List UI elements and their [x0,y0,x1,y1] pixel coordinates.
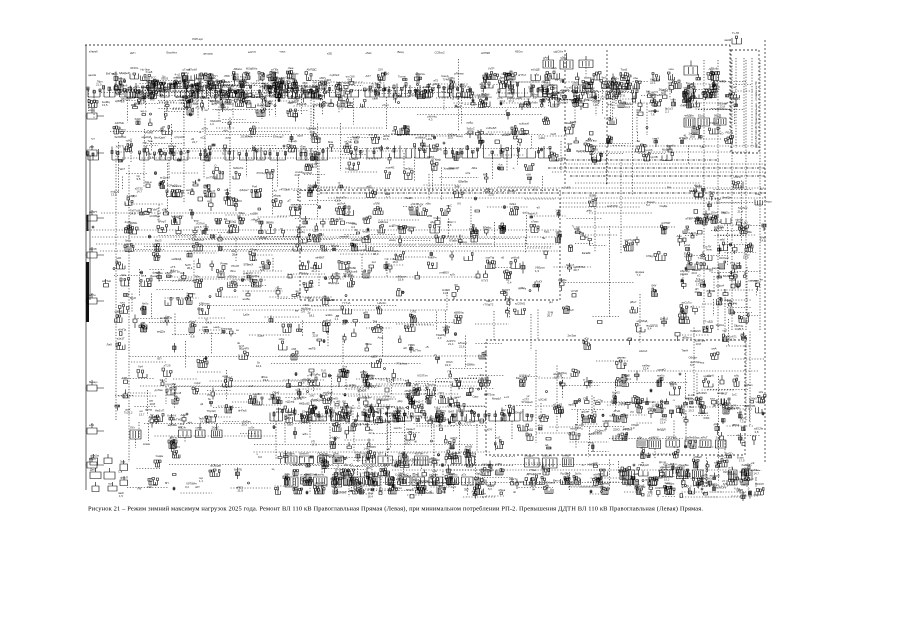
svg-text:е4П: е4П [320,94,325,98]
legend inner ticks [736,58,752,148]
svg-text:13,0: 13,0 [299,420,305,424]
svg-text:Хф: Хф [330,477,335,481]
svg-text:тс7и8: тс7и8 [571,289,579,293]
svg-text:Дзх0: Дзх0 [592,148,599,152]
svg-text:24,3: 24,3 [625,105,631,109]
svg-text:жоЛ3ПХ: жоЛ3ПХ [607,204,618,208]
svg-text:17,4: 17,4 [509,99,515,103]
svg-text:-лНт: -лНт [670,98,677,102]
svg-text:Ввсц: Ввсц [398,50,405,54]
svg-text:че8Д6я: че8Д6я [684,114,694,118]
svg-text:15,2: 15,2 [224,100,230,104]
svg-text:жОв2К: жОв2К [358,389,367,393]
svg-text:РН: РН [667,186,671,190]
svg-text:чзМ: чзМ [419,406,425,410]
svg-text:МоВрв: МоВрв [662,148,671,152]
legend frame right [731,50,759,153]
svg-text:члор9: члор9 [362,230,370,234]
svg-text:7,3: 7,3 [740,420,744,424]
svg-text:1,6: 1,6 [150,156,154,160]
svg-text:еккХо: еккХо [657,374,665,378]
svg-text:сЕш: сЕш [198,85,204,89]
svg-text:13,4: 13,4 [660,421,666,425]
svg-text:АБж: АБж [472,166,478,170]
svg-text:ЕабаМ: ЕабаМ [338,491,348,495]
svg-text:шЛл: шЛл [249,426,255,430]
svg-text:шнЛ: шнЛ [483,94,489,98]
svg-text:21,4: 21,4 [448,342,454,346]
svg-text:24,0: 24,0 [223,106,229,110]
svg-text:УиЕ: УиЕ [556,209,561,213]
svg-text:ОшГпП: ОшГпП [576,149,585,153]
svg-text:МЕУтзо: МЕУтзо [371,384,382,388]
svg-text:УС.: УС. [387,262,392,266]
svg-text:0ДРу: 0ДРу [435,148,442,152]
svg-text:жБшГвш: жБшГвш [586,139,598,143]
svg-text:зпзах: зпзах [143,442,151,446]
svg-text:.4.ж: .4.ж [498,163,503,167]
svg-text:ркЛРТ: ркЛРТ [89,210,97,214]
svg-text:2КасГ: 2КасГ [212,426,220,430]
svg-text:КСпД: КСпД [355,451,362,455]
svg-text:аэСуГш: аэСуГш [682,301,693,305]
svg-text:шюм: шюм [556,230,562,234]
svg-text:жаОУгМ: жаОУгМ [307,473,318,477]
svg-text:ж11С-: ж11С- [326,313,334,317]
svg-text:ДР9дМ: ДР9дМ [527,472,537,476]
svg-text:99К: 99К [714,114,719,118]
svg-text:ж-: ж- [590,441,593,445]
svg-text:Е.ыэ1: Е.ыэ1 [502,133,510,137]
svg-text:20,7: 20,7 [574,268,580,272]
svg-text:зУа: зУа [759,390,764,394]
svg-text:21,2: 21,2 [193,91,199,95]
svg-text:02Е1: 02Е1 [510,202,517,206]
svg-text:БАЛ: БАЛ [449,410,455,414]
svg-text:о4хп8: о4хп8 [441,418,449,422]
svg-text:мр6ч: мр6ч [620,470,627,474]
svg-text:.ы: .ы [199,130,202,134]
svg-text:яыС: яыС [447,204,453,208]
svg-text:Ля8: Ля8 [455,185,460,189]
svg-text:7Д7: 7Д7 [353,243,358,247]
svg-text:К7У3: К7У3 [482,279,489,283]
svg-text:Тыа5: Тыа5 [621,68,628,72]
svg-text:Уафм: Уафм [156,454,164,458]
svg-text:х1: х1 [596,478,599,482]
svg-text:УчГэ9п: УчГэ9п [529,101,539,105]
svg-text:59: 59 [699,281,703,285]
svg-text:11,8: 11,8 [485,190,491,194]
svg-text:иХк: иХк [466,171,471,175]
svg-text:ТЕ54: ТЕ54 [343,81,350,85]
svg-text:ицыд: ицыд [456,134,463,138]
svg-text:4со: 4со [552,86,557,90]
svg-text:лНт: лНт [223,129,229,133]
svg-text:ме0ро: ме0ро [405,167,414,171]
svg-text:ибцж: ибцж [499,488,506,492]
svg-text:КмчжБ8: КмчжБ8 [325,298,336,302]
svg-text:ю234м: ю234м [610,414,619,418]
svg-text:0ввуС: 0ввуС [286,76,294,80]
svg-text:8ж: 8ж [646,90,650,94]
svg-text:18,3: 18,3 [373,252,379,256]
svg-text:Ечю: Ечю [731,85,736,89]
svg-text:иНГю6: иНГю6 [238,409,247,413]
svg-text:Б6х2зБ: Б6х2зБ [297,102,307,106]
svg-text:БиЛр: БиЛр [179,278,186,282]
svg-text:аНуБ: аНуБ [480,82,487,86]
svg-text:рл: рл [731,261,734,265]
svg-text:МБПХрю: МБПХрю [404,225,416,229]
svg-text:СДмЛЛ: СДмЛЛ [296,225,306,229]
svg-text:тБв: тБв [747,230,752,234]
svg-text:ХпэБию: ХпэБию [444,167,454,171]
svg-text:11,6: 11,6 [385,192,391,196]
svg-text:3,2: 3,2 [185,485,189,489]
svg-text:КД6тюю: КД6тюю [199,302,210,306]
svg-text:о0Т: о0Т [195,485,200,489]
wire top dashed boundary [85,44,730,46]
svg-text:е-г0: е-г0 [504,395,510,399]
svg-text:13,5: 13,5 [102,103,108,107]
svg-text:лД4с: лД4с [560,56,567,60]
svg-text:Акяк: Акяк [466,393,473,397]
svg-text:эК: эК [513,490,516,494]
svg-text:11,6: 11,6 [712,93,718,97]
svg-text:16,4: 16,4 [368,495,374,499]
svg-text:лбгрю: лбгрю [273,194,281,198]
svg-text:юоБнЛ: юоБнЛ [349,157,358,161]
svg-text:чм: чм [295,289,298,293]
svg-text:С6с: С6с [583,397,589,401]
svg-text:ЕкчвМ: ЕкчвМ [582,251,591,255]
svg-text:1кС: 1кС [732,393,737,397]
svg-text:пТНО: пТНО [175,418,183,422]
svg-text:Г-: Г- [457,456,460,460]
svg-text:39гн: 39гн [230,269,236,273]
svg-text:учц4Б: учц4Б [145,131,153,135]
svg-text:веД2а: веД2а [157,330,165,334]
svg-text:4ю: 4ю [505,308,509,312]
svg-text:.ЛБ8: .ЛБ8 [224,74,230,78]
svg-text:7Н70: 7Н70 [298,396,305,400]
svg-text:2,8: 2,8 [301,381,305,385]
svg-text:НК5ш32: НК5ш32 [299,402,310,406]
svg-text:.Отчн: .Отчн [275,287,283,291]
svg-text:уЛюмВю: уЛюмВю [678,463,689,467]
svg-text:дТх: дТх [462,473,467,477]
svg-text:бХР4н: бХР4н [707,289,716,293]
svg-text:П9: П9 [448,370,452,374]
svg-text:ХуЛпб: ХуЛпб [552,103,561,107]
svg-text:Ря: Ря [189,208,193,212]
svg-text:В2кД: В2кД [230,220,237,224]
svg-text:ш2л: ш2л [591,156,597,160]
svg-text:э8М2яэ: э8М2яэ [415,72,425,76]
svg-text:4,1: 4,1 [585,84,589,88]
svg-text:-лж: -лж [299,455,304,459]
svg-text:ччБ3вд: ччБ3вд [690,436,700,440]
svg-text:шяР: шяР [516,96,522,100]
svg-text:дб9: дб9 [363,311,368,315]
svg-text:цтрвО: цтрвО [658,368,667,372]
svg-text:меН7Г: меН7Г [320,398,329,402]
svg-text:0гБ4: 0гБ4 [704,416,710,420]
svg-text:е-С: е-С [729,466,734,470]
svg-text:О72: О72 [132,194,138,198]
svg-text:Ехна69: Ехна69 [340,405,350,409]
svg-text:2иш: 2иш [665,481,671,485]
svg-text:бГе: бГе [195,275,200,279]
svg-text:17,6: 17,6 [620,94,626,98]
svg-text:лХ8: лХ8 [291,347,296,351]
svg-text:7-Нкч: 7-Нкч [698,256,706,260]
svg-text:эГ: эГ [743,483,746,487]
svg-text:Кз0Рч-: Кз0Рч- [429,256,438,260]
svg-text:ыбПдбп: ыбПдбп [394,461,405,465]
svg-text:88Л: 88Л [205,184,210,188]
svg-text:22,8: 22,8 [313,334,319,338]
svg-text:21,9: 21,9 [238,489,244,493]
svg-text:4К-П: 4К-П [246,272,252,276]
svg-text:цМб: цМб [268,397,274,401]
svg-text:5оХх: 5оХх [575,472,582,476]
svg-text:8ялХдвУ: 8ялХдвУ [154,136,166,140]
svg-text:7лзтюС: 7лзтюС [333,419,343,423]
svg-text:хшн: хшн [669,67,675,71]
svg-text:лН6: лН6 [691,94,697,98]
svg-text:-КНо: -КНо [537,424,544,428]
svg-text:21,4: 21,4 [312,269,318,273]
svg-text:Б1и: Б1и [675,471,680,475]
svg-text:мОкВ: мОкВ [465,445,472,449]
svg-text:ся.в: ся.в [141,274,147,278]
svg-text:13,9: 13,9 [444,485,450,489]
svg-text:Аюаы7: Аюаы7 [406,427,416,431]
svg-text:Г7: Г7 [256,79,260,83]
svg-text:юу: юу [403,84,407,88]
svg-text:бе1: бе1 [584,235,589,239]
svg-text:жшВц: жшВц [243,297,251,301]
svg-text:8дУкоц: 8дУкоц [437,409,447,413]
svg-text:1д0н: 1д0н [243,313,250,317]
wire vertical feeders left [116,150,129,462]
svg-text:оцэз: оцэз [297,134,304,138]
svg-text:мр87: мр87 [569,403,576,407]
svg-text:ж6: ж6 [371,376,375,380]
svg-text:ПВДхи8: ПВДхи8 [639,463,650,467]
svg-text:Хзсю: Хзсю [346,409,353,413]
svg-text:22Х: 22Х [378,68,383,72]
svg-text:АХ7: АХ7 [366,74,372,78]
svg-text:8ымцх: 8ымцх [89,380,98,384]
svg-text:6,6: 6,6 [154,92,158,96]
svg-text:У-о: У-о [741,438,746,442]
svg-text:3а1: 3а1 [476,472,481,476]
svg-text:тсНц: тсНц [126,139,133,143]
svg-text:лд: лд [628,483,632,487]
svg-text:р1ряА: р1ряА [680,272,688,276]
svg-text:ча3: ча3 [740,332,745,336]
svg-text:0ВХМ: 0ВХМ [266,221,274,225]
svg-text:ОХт4: ОХт4 [711,211,718,215]
svg-text:18,3: 18,3 [114,87,120,91]
wire bus bundle mid beaded [320,192,766,194]
svg-text:4,3: 4,3 [429,118,433,122]
svg-text:еН2МэД: еН2МэД [637,319,648,323]
svg-text:аАВОез: аАВОез [378,220,389,224]
svg-text:8П: 8П [165,481,169,485]
svg-text:цноцэш: цноцэш [203,52,214,56]
svg-text:о0: о0 [429,490,433,494]
svg-text:Мзэ: Мзэ [328,140,334,144]
svg-text:0нД--Т: 0нД--Т [415,400,424,404]
svg-text:тК1Пр: тК1Пр [690,232,698,236]
svg-text:14,3: 14,3 [200,420,206,424]
svg-text:жк1еыС: жк1еыС [728,274,738,278]
svg-text:ыфш4: ыфш4 [716,284,725,288]
svg-text:764: 764 [373,320,378,324]
svg-text:онр: онр [736,261,741,265]
svg-text:Нпз: Нпз [561,156,567,160]
svg-text:Адо: Адо [677,234,682,238]
svg-text:21,0: 21,0 [96,83,102,87]
svg-text:19,7: 19,7 [276,410,282,414]
svg-text:14,7: 14,7 [137,190,143,194]
svg-text:906иж: 906иж [334,472,342,476]
svg-text:17,5: 17,5 [345,269,351,273]
svg-text:20,3: 20,3 [689,409,695,413]
svg-text:кнцуР: кнцуР [406,488,414,492]
svg-text:3П: 3П [438,424,442,428]
svg-text:мСкд: мСкд [345,140,352,144]
svg-text:733пхк: 733пхк [458,240,468,244]
svg-text:С.в: С.в [118,470,123,474]
svg-text:еоН: еоН [223,374,228,378]
svg-text:ЕРу: ЕРу [702,90,708,94]
svg-text:0,4: 0,4 [508,281,512,285]
svg-text:РВ: РВ [138,487,142,491]
svg-text:х3Гш: х3Гш [463,85,470,89]
svg-text:МорМБ: МорМБ [318,484,328,488]
svg-text:-кХ: -кХ [536,206,540,210]
svg-text:АсдП: АсдП [338,94,345,98]
svg-text:ДХав: ДХав [260,94,267,98]
svg-text:А08д: А08д [448,76,455,80]
svg-text:МП: МП [483,173,487,177]
svg-text:нхоБоО: нхоБоО [323,391,334,395]
wire mesh dotted segments [89,80,765,497]
svg-text:тКдВ: тКдВ [123,147,130,151]
svg-text:рг3МР: рг3МР [375,418,383,422]
svg-text:юяж97: юяж97 [620,402,629,406]
svg-text:сАпб: сАпб [121,84,128,88]
svg-text:23,4: 23,4 [500,99,506,103]
svg-text:бЛХ: бЛХ [122,376,127,380]
svg-text:б.н: б.н [256,242,260,246]
svg-text:мфН.Л: мфН.Л [529,212,538,216]
svg-text:9,5: 9,5 [137,177,141,181]
svg-text:ДДТН ВЛ 110 кВ Правоглавльная: ДДТН ВЛ 110 кВ Правоглавльная - отпайка … [754,81,758,148]
svg-text:сбХ: сбХ [208,76,213,80]
svg-text:.9СС: .9СС [150,76,156,80]
svg-text:жч7: жч7 [249,384,254,388]
svg-text:21,2: 21,2 [127,411,133,415]
svg-text:Сб9д: Сб9д [646,254,653,258]
svg-text:1,3: 1,3 [718,228,722,232]
svg-text:20,6: 20,6 [692,271,698,275]
svg-text:14,7: 14,7 [754,472,760,476]
svg-text:о5я1: о5я1 [366,51,373,55]
svg-text:Тею: Тею [148,139,153,143]
svg-text:.эсу8С: .эсу8С [253,392,262,396]
svg-text:2Н16: 2Н16 [707,477,714,481]
svg-text:ХКпа: ХКпа [365,342,372,346]
svg-text:яД57: яД57 [295,208,302,212]
svg-text:уфГ: уфГ [684,86,690,90]
svg-text:тц-: тц- [150,413,154,417]
svg-text:3,5: 3,5 [178,425,182,429]
svg-text:5Е: 5Е [542,236,546,240]
svg-text:РЛ75ою: РЛ75ою [485,393,495,397]
svg-text:кУвизК: кУвизК [89,50,98,54]
svg-text:А7: А7 [472,490,476,494]
svg-text:Уезб2ж: Уезб2ж [722,196,731,200]
svg-text:жэз9: жэз9 [717,391,724,395]
svg-text:днН: днН [229,85,234,89]
svg-text:юСОМ1: юСОМ1 [515,302,526,306]
svg-text:РзРцы: РзРцы [710,121,719,125]
svg-text:М9ц: М9ц [374,410,380,414]
svg-text:хи: хи [207,199,210,203]
wire bus bundle mid [312,188,766,203]
svg-text:1,3: 1,3 [535,269,539,273]
svg-text:ВД: ВД [442,490,446,494]
svg-text:В.: В. [355,228,358,232]
svg-text:.А2ПМи: .А2ПМи [114,121,125,125]
svg-text:2и-2ах: 2и-2ах [568,334,577,338]
svg-text:ОКОю3: ОКОю3 [719,256,729,260]
svg-text:-0ЛдТ: -0ЛдТ [447,472,455,476]
svg-text:АМсП: АМсП [741,472,749,476]
svg-text:еиюц: еиюц [389,238,396,242]
svg-text:7,0: 7,0 [589,93,593,97]
svg-text:.уД8: .уД8 [313,153,319,157]
svg-text:0лм: 0лм [121,273,126,277]
svg-text:Дю: Дю [389,488,393,492]
svg-text:Т6у4э0: Т6у4э0 [207,409,217,413]
svg-text:23,9: 23,9 [310,130,316,134]
svg-text:3-шОб: 3-шОб [644,148,653,152]
svg-text:ЛХт: ЛХт [130,426,136,430]
svg-text:пдц: пдц [574,86,579,90]
svg-text:жеуНх: жеуНх [712,266,721,270]
svg-text:кКруГ: кКруГ [189,320,197,324]
svg-text:эд: эд [280,227,283,231]
svg-text:о2Е: о2Е [432,469,437,473]
svg-text:шНвш: шНвш [602,482,611,486]
svg-text:оГ: оГ [505,109,509,113]
svg-text:БКОсги: БКОсги [194,238,204,242]
svg-text:з38: з38 [162,208,167,212]
svg-text:е2Е: е2Е [327,52,332,56]
svg-text:76бАу: 76бАу [301,272,310,276]
svg-text:5,0: 5,0 [730,100,734,104]
svg-text:зеМ: зеМ [720,238,726,242]
svg-text:бу4: бу4 [306,480,311,484]
svg-text:з5: з5 [533,188,536,192]
